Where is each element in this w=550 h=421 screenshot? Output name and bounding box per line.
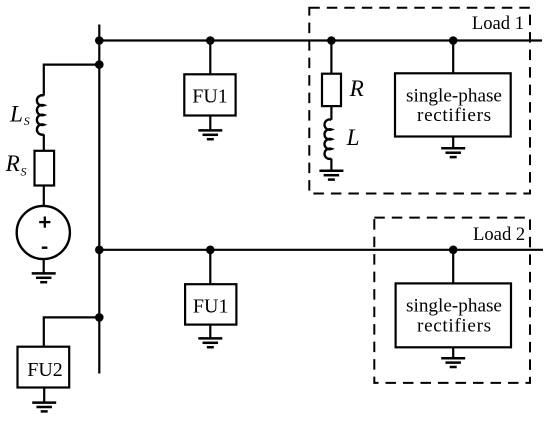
node junction FU1 bottom tap [206, 246, 215, 255]
svg-text:S: S [21, 165, 27, 179]
source V1 circle [17, 206, 70, 259]
ground FU2 [32, 403, 56, 412]
ground FU1 top [198, 130, 222, 139]
node junction rectifier1 tap [449, 36, 458, 45]
node junction middle bus / vertical bus [95, 246, 104, 255]
svg-text:rectifiers: rectifiers [417, 105, 492, 126]
Load 1 dashed box [309, 8, 530, 194]
resistor Rs [35, 151, 55, 186]
fuse FU1 top box [184, 74, 235, 115]
svg-text:Load 1: Load 1 [472, 13, 524, 34]
ground rectifier 2 [441, 358, 465, 367]
fuse FU2 box [18, 347, 70, 388]
wire FU2 tap [44, 317, 100, 346]
Load 2 dashed box [374, 218, 530, 383]
wire inductor L to ground [330, 159, 332, 171]
wire middle bus to rectifier 2 [452, 250, 454, 284]
wire FU1 to ground [209, 116, 211, 131]
svg-text:R: R [349, 76, 364, 102]
source plus sign [39, 217, 50, 228]
wire top horizontal bus [99, 39, 542, 41]
inductor Ls [37, 95, 44, 134]
svg-text:single-phase: single-phase [406, 85, 502, 106]
node junction top bus / vertical bus [95, 36, 104, 45]
ground source [32, 273, 56, 282]
node junction rectifier2 tap [449, 246, 458, 255]
wire top bus to rectifier 1 [452, 41, 454, 74]
wire middle bus to FU1 bottom [209, 250, 211, 284]
resistor R [322, 74, 341, 106]
wire inductor to resistor [43, 134, 45, 150]
wire FU1 bottom to ground [209, 325, 211, 339]
svg-text:R: R [5, 151, 20, 177]
svg-text:rectifiers: rectifiers [417, 315, 492, 336]
wire top bus to resistor R [330, 41, 332, 74]
ground RL branch [319, 171, 343, 180]
wire rectifier 1 to ground [452, 137, 454, 149]
wire resistor to source [43, 186, 45, 207]
rectifier box 2 [396, 283, 511, 347]
wire FU2 to ground [43, 388, 45, 403]
fuse FU1 bottom box [185, 284, 236, 324]
wire source to ground [43, 259, 45, 273]
rectifier box 1 [395, 73, 511, 136]
node junction FU2 tap [95, 313, 104, 322]
ground rectifier 1 [441, 148, 465, 157]
inductor L [325, 120, 332, 159]
wire rectifier 2 to ground [452, 347, 454, 358]
node junction RL branch tap [327, 36, 336, 45]
wire top bus to FU1 [209, 41, 211, 75]
svg-text:FU2: FU2 [27, 359, 63, 381]
svg-text:Load 2: Load 2 [473, 224, 525, 245]
svg-text:L: L [9, 101, 23, 127]
node junction FU1 top tap [206, 36, 215, 45]
wire source branch tap [44, 65, 100, 96]
svg-text:L: L [346, 125, 360, 151]
node junction source tap [95, 60, 104, 69]
svg-text:FU1: FU1 [192, 86, 228, 108]
svg-text:single-phase: single-phase [406, 296, 502, 317]
wire resistor R to inductor L [330, 106, 332, 120]
source minus sign [42, 246, 48, 248]
svg-text:FU1: FU1 [193, 296, 229, 318]
svg-text:S: S [24, 114, 30, 128]
wire middle horizontal bus [99, 249, 543, 251]
wire vertical bus [98, 25, 100, 374]
ground FU1 bottom [198, 338, 222, 347]
